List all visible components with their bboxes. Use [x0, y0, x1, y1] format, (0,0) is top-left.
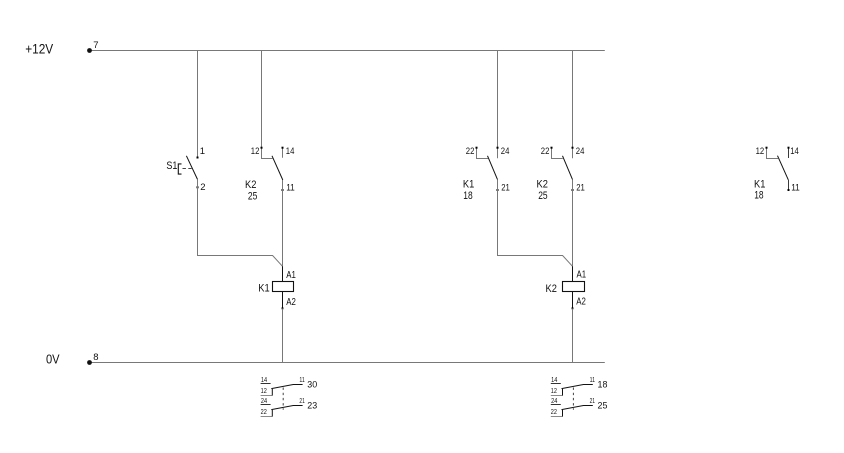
svg-text:A1: A1: [577, 270, 587, 281]
coil K2 body: [563, 282, 585, 292]
spare contact K1:11 tick: [788, 189, 790, 191]
wire K1 coil A2 to 0V rail: [282, 309, 284, 363]
mirror K2 row2 hook: [562, 410, 564, 417]
svg-text:18: 18: [754, 190, 763, 202]
mirror K1 pin 14 underline: [261, 383, 271, 385]
svg-text:24: 24: [501, 146, 510, 157]
svg-text:12: 12: [551, 386, 557, 395]
mirror K2 row1 hook: [562, 389, 564, 396]
svg-text:22: 22: [551, 407, 557, 416]
mirror K1 row1 hook: [271, 389, 273, 396]
coil K1 body: [273, 282, 294, 292]
mirror K2 row2 link line: [562, 406, 593, 410]
svg-text:K1: K1: [258, 282, 269, 294]
node 7 junction dot: [87, 48, 92, 53]
svg-text:A2: A2: [286, 297, 296, 308]
wire K2m:21 down to node B: [572, 180, 574, 267]
svg-text:K2: K2: [537, 179, 548, 191]
svg-text:12: 12: [756, 146, 765, 157]
mirror K1 mechanical dashed link: [282, 388, 284, 410]
svg-text:14: 14: [261, 375, 267, 384]
svg-text:25: 25: [538, 190, 547, 202]
svg-text:K2: K2: [546, 283, 557, 295]
mirror K1 row2 link line: [271, 406, 302, 410]
wire K2 coil A2 to 0V rail: [572, 309, 574, 363]
svg-text:14: 14: [286, 146, 295, 157]
contact K2m:21 tick: [572, 189, 574, 191]
0V rail: [89, 362, 605, 364]
K1 coil A2 lead: [282, 292, 284, 309]
svg-text:8: 8: [93, 352, 98, 363]
svg-text:21: 21: [576, 183, 585, 194]
contact K2m blade: [563, 156, 573, 180]
svg-text:25: 25: [248, 191, 257, 203]
svg-text:A2: A2: [576, 297, 586, 308]
svg-text:21: 21: [299, 396, 304, 405]
spare contact K1:12 stub with pivot bend: [767, 149, 779, 159]
svg-text:11: 11: [590, 375, 595, 384]
K1 coil A2 terminal tick: [282, 307, 284, 309]
svg-text:24: 24: [551, 396, 557, 405]
svg-text:7: 7: [93, 40, 98, 51]
contact K2m:24 tick: [572, 147, 574, 149]
S1 terminal 2 tick: [197, 186, 199, 188]
svg-text:1: 1: [200, 146, 205, 157]
spare contact K1:11 stub: [788, 180, 790, 191]
contact K2:14 tick: [282, 147, 284, 149]
svg-text:21: 21: [501, 183, 510, 194]
svg-text:S1: S1: [166, 160, 177, 172]
mirror K2 row1 link line: [562, 385, 593, 389]
spare contact K1:14 stub: [788, 149, 790, 159]
svg-text:0V: 0V: [46, 352, 60, 366]
svg-text:+12V: +12V: [25, 41, 54, 57]
svg-text:11: 11: [791, 183, 800, 194]
contact K1:22 stub with pivot bend: [477, 149, 489, 159]
+12V rail: [89, 50, 605, 52]
svg-text:11: 11: [286, 183, 295, 194]
mirror K1 row1 link line: [271, 385, 302, 389]
svg-text:18: 18: [463, 190, 472, 202]
svg-text:18: 18: [598, 380, 608, 391]
svg-text:22: 22: [541, 146, 550, 157]
wire rail to contact K2:12 with pivot bend: [262, 51, 273, 159]
mirror K2 pin 24 underline: [551, 404, 561, 406]
K2 coil A1 lead: [572, 266, 574, 281]
contact K2m:22 stub with pivot bend: [552, 149, 563, 159]
svg-text:25: 25: [598, 401, 608, 412]
wire K2:11 down to node A: [282, 180, 284, 266]
svg-text:30: 30: [307, 380, 317, 391]
mirror K2 pin 12 underline: [551, 395, 563, 397]
svg-text:24: 24: [576, 146, 585, 157]
contact K2:14 stub: [282, 149, 284, 158]
svg-text:A1: A1: [286, 270, 296, 281]
contact K1 blade: [488, 156, 498, 180]
svg-text:23: 23: [307, 401, 317, 412]
svg-text:12: 12: [261, 386, 267, 395]
spare contact K1 blade: [778, 156, 789, 180]
svg-text:22: 22: [466, 146, 475, 157]
contact K1:21 tick: [497, 189, 499, 191]
K2 coil A2 lead: [572, 292, 574, 309]
K1 coil A1 lead: [282, 266, 284, 281]
mirror K1 pin 12 underline: [261, 395, 273, 397]
svg-text:K2: K2: [245, 179, 256, 191]
svg-text:12: 12: [251, 146, 260, 157]
mirror K2 mechanical dashed link: [572, 388, 574, 410]
S1 actuator dashed link: [183, 168, 193, 170]
contact K1:24 tick: [497, 147, 499, 149]
node 8 junction dot: [87, 360, 92, 365]
contact K2 12-11 blade: [272, 156, 283, 180]
mirror K1 pin 22 underline: [261, 416, 273, 418]
mirror K2 pin 14 underline: [551, 383, 561, 385]
mirror K1 pin 24 underline: [261, 404, 271, 406]
S1 pushbutton actuator: [178, 164, 181, 174]
mirror K1 row2 hook: [271, 410, 273, 417]
contact K1:22 tick: [476, 147, 478, 149]
wire rail to contact K2m:24: [572, 51, 574, 159]
wire S1 terminal 2 to junction node A: [198, 179, 283, 266]
contact K2:11 tick: [282, 189, 284, 191]
svg-text:14: 14: [551, 375, 557, 384]
mirror K2 pin 22 underline: [551, 416, 563, 418]
spare contact K1:14 tick: [788, 147, 790, 149]
wire rail to S1 terminal 1: [197, 51, 199, 158]
wire K1:21 to junction node B: [498, 180, 573, 267]
svg-text:22: 22: [261, 407, 267, 416]
svg-text:24: 24: [261, 396, 267, 405]
wire rail to contact K1:24: [497, 51, 499, 159]
svg-text:K1: K1: [463, 179, 474, 191]
K2 coil A2 terminal tick: [572, 307, 574, 309]
svg-text:21: 21: [590, 396, 595, 405]
switch S1 blade: [186, 156, 197, 180]
contact K2m:22 tick: [551, 147, 553, 149]
contact K2:12 tick: [261, 147, 263, 149]
svg-text:11: 11: [299, 375, 304, 384]
svg-text:2: 2: [200, 182, 205, 193]
S1 terminal 1 tick: [197, 157, 199, 159]
svg-text:14: 14: [790, 146, 799, 157]
spare contact K1:12 tick: [766, 147, 768, 149]
